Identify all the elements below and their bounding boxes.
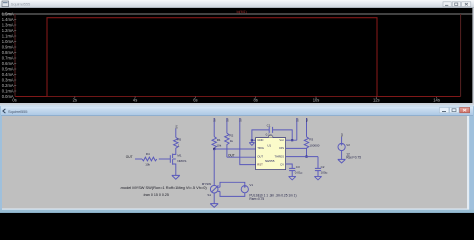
source V2 bbox=[338, 143, 345, 150]
junction Vcc/C1 bbox=[291, 139, 293, 141]
top window buttons (min, restore, close) bbox=[443, 2, 471, 7]
svg-text:C3: C3 bbox=[296, 165, 300, 169]
svg-text:Id(M1): Id(M1) bbox=[237, 10, 247, 14]
top window icon bbox=[2, 1, 9, 7]
resistor R3 bbox=[304, 137, 308, 149]
resistor R5 bbox=[174, 137, 178, 150]
pin labels U1 bbox=[257, 138, 284, 167]
wire OUT to R4 bbox=[135, 158, 142, 160]
bottom window frame bbox=[0, 106, 474, 213]
node 5V label (RST stub) bbox=[238, 118, 242, 122]
node 5V label (R2 stub) bbox=[225, 118, 229, 122]
ground (S1) bbox=[210, 204, 218, 208]
y axis ticks bbox=[14, 20, 16, 92]
svg-text:0s: 0s bbox=[12, 98, 16, 103]
wire GND pin stub bbox=[252, 139, 256, 141]
pane top grey line bbox=[2, 13, 473, 15]
wire V2 top stub bbox=[341, 137, 343, 143]
wire S1 top (TRIG junction down) bbox=[213, 149, 215, 186]
spice directive .model bbox=[120, 185, 208, 190]
svg-text:1.1mA: 1.1mA bbox=[2, 34, 14, 39]
svg-text:C2: C2 bbox=[321, 165, 325, 169]
wire R3 bottom to THRES bbox=[306, 148, 308, 156]
wire DIS pin to R3 bottom bbox=[286, 147, 307, 149]
U1 name/value bbox=[265, 143, 275, 163]
svg-text:1.0mA: 1.0mA bbox=[2, 39, 14, 44]
svg-text:OUT: OUT bbox=[257, 154, 263, 158]
svg-text:OUT: OUT bbox=[126, 155, 133, 159]
svg-text:Rser=0.75: Rser=0.75 bbox=[346, 156, 361, 160]
svg-text:10k: 10k bbox=[216, 144, 221, 148]
wire S1 control loop bottom bbox=[220, 191, 245, 196]
svg-text:5V: 5V bbox=[238, 118, 242, 122]
node 5V label (R3 stub) bbox=[305, 118, 309, 122]
wire TRIG net (R1 bottom to chip) bbox=[214, 148, 255, 150]
svg-text:5V: 5V bbox=[213, 118, 217, 122]
svg-text:1.2mA: 1.2mA bbox=[2, 28, 14, 33]
junction THRES/R3/C2 bbox=[305, 156, 307, 158]
wire R5 top stub bbox=[175, 129, 177, 138]
y axis labels bbox=[2, 12, 14, 100]
wire S1 bottom bbox=[213, 193, 215, 204]
svg-text:CV: CV bbox=[280, 163, 284, 167]
wire R1 top stub bbox=[213, 118, 215, 137]
svg-text:0.5mA: 0.5mA bbox=[2, 67, 14, 72]
svg-text:1.5mA: 1.5mA bbox=[2, 12, 14, 17]
wire M1 source bbox=[175, 169, 177, 175]
wire V2 bottom bbox=[341, 151, 343, 160]
svg-text:OUT: OUT bbox=[228, 153, 235, 157]
ground (555 GND pin) bbox=[249, 140, 254, 145]
svg-text:5V: 5V bbox=[305, 118, 309, 122]
svg-text:1.4mA: 1.4mA bbox=[2, 17, 14, 22]
svg-text:Squirrel555: Squirrel555 bbox=[8, 109, 28, 114]
capacitor C3 bbox=[289, 168, 295, 176]
svg-text:10k: 10k bbox=[145, 163, 150, 167]
node 5V label (V2 stub) bbox=[340, 133, 344, 137]
svg-text:100µ: 100µ bbox=[321, 170, 328, 174]
svg-text:V2: V2 bbox=[346, 143, 350, 147]
svg-text:Squirrel555: Squirrel555 bbox=[11, 2, 31, 7]
svg-text:THRES: THRES bbox=[275, 154, 285, 158]
ground (M1 source) bbox=[172, 175, 180, 179]
svg-text:0.7mA: 0.7mA bbox=[2, 56, 14, 61]
svg-text:TRIG: TRIG bbox=[257, 146, 264, 150]
svg-text:R5: R5 bbox=[177, 138, 181, 142]
svg-text:U1: U1 bbox=[267, 143, 271, 147]
svg-text:R3: R3 bbox=[309, 137, 313, 141]
svg-text:R2: R2 bbox=[230, 134, 234, 138]
wire OUT net (to chip OUT pin) bbox=[227, 156, 256, 158]
svg-text:0.1mA: 0.1mA bbox=[2, 89, 14, 94]
node 5V label (R5 stub) bbox=[174, 125, 178, 129]
svg-text:0.6mA: 0.6mA bbox=[2, 61, 14, 66]
svg-text:GND: GND bbox=[257, 138, 263, 142]
svg-text:0.9mA: 0.9mA bbox=[2, 45, 14, 50]
resistor R4 bbox=[142, 157, 157, 161]
junction GND pin bbox=[251, 139, 253, 141]
node 5V label (Vcc stub) bbox=[295, 118, 299, 122]
wire CV pin to C3 bbox=[286, 164, 293, 168]
ground (C2) bbox=[314, 176, 321, 180]
top window bottom edge bbox=[0, 103, 474, 104]
svg-text:5V: 5V bbox=[174, 125, 178, 129]
current trace Id(M1) pulse bbox=[16, 18, 461, 97]
node OUT label (at chip OUT wire) bbox=[228, 153, 235, 157]
pane left/right borders bbox=[15, 14, 461, 97]
resistor R1 bbox=[212, 137, 216, 149]
resistor R2 bbox=[225, 133, 229, 145]
wire THRES net bbox=[286, 157, 318, 169]
wire RST pull-up to 5V bbox=[240, 118, 256, 165]
ground (V2) bbox=[338, 159, 346, 163]
svg-text:V1: V1 bbox=[249, 183, 253, 187]
svg-text:1k: 1k bbox=[230, 139, 234, 143]
source V1 bbox=[241, 186, 248, 193]
node 5V label (R1 stub) bbox=[213, 118, 217, 122]
node OUT flag (left) bbox=[126, 155, 133, 159]
schematic grey client area bbox=[2, 116, 467, 208]
bottom window icon bbox=[3, 109, 6, 113]
svg-text:Rser=0.75: Rser=0.75 bbox=[249, 197, 264, 201]
op 555 timer U1 bbox=[256, 135, 286, 169]
svg-text:5V: 5V bbox=[340, 133, 344, 137]
svg-text:Vcc: Vcc bbox=[279, 138, 284, 142]
wire R4 to gate M1 bbox=[159, 158, 171, 160]
wire Vcc pin to 5V stub bbox=[286, 118, 297, 140]
svg-text:5V: 5V bbox=[225, 118, 229, 122]
bottom window title bar bbox=[1, 106, 473, 116]
capacitor C1 bbox=[269, 127, 272, 133]
svg-text:C1: C1 bbox=[267, 123, 271, 127]
svg-text:0.01µ: 0.01µ bbox=[295, 170, 303, 174]
svg-text:5V: 5V bbox=[295, 118, 299, 122]
wire C1 loop right bbox=[273, 130, 293, 140]
x axis ticks bbox=[75, 97, 437, 99]
wire R2 bottom to OUT net bbox=[226, 146, 228, 158]
pane bottom border / axis bbox=[15, 96, 461, 98]
svg-text:R1: R1 bbox=[217, 138, 221, 142]
svg-text:0.2mA: 0.2mA bbox=[2, 83, 14, 88]
svg-text:DIS: DIS bbox=[279, 146, 284, 150]
svg-text:.tran 0 15 0 0.25: .tran 0 15 0 0.25 bbox=[143, 193, 169, 197]
bottom window buttons (min, max, close) bbox=[440, 107, 470, 112]
svg-text:0.4mA: 0.4mA bbox=[2, 72, 14, 77]
top window title bar bbox=[0, 0, 474, 8]
svg-text:NMOS: NMOS bbox=[177, 159, 186, 163]
switch S1 bbox=[210, 185, 220, 193]
wire S1 control loop top bbox=[220, 182, 245, 187]
svg-text:R4: R4 bbox=[146, 152, 150, 156]
svg-text:1.3mA: 1.3mA bbox=[2, 23, 14, 28]
svg-text:.model MYSW SW(Ron=1 Roff=1Meg: .model MYSW SW(Ron=1 Roff=1Meg Vt=.5 Vh=… bbox=[120, 185, 208, 190]
junction TRIG/R1/S1 bbox=[213, 148, 215, 150]
svg-text:0.8mA: 0.8mA bbox=[2, 50, 14, 55]
spice directive .tran bbox=[143, 193, 169, 197]
svg-text:S1: S1 bbox=[207, 193, 211, 197]
wire C1 loop left bbox=[252, 130, 269, 140]
svg-text:M1: M1 bbox=[177, 154, 181, 158]
ground (C3) bbox=[289, 176, 296, 180]
transistor M1 NMOS bbox=[170, 150, 176, 169]
svg-text:NE555: NE555 bbox=[265, 159, 275, 163]
plot black client area bbox=[0, 8, 474, 103]
svg-text:RST: RST bbox=[257, 163, 263, 167]
svg-text:0.3mA: 0.3mA bbox=[2, 78, 14, 83]
svg-text:100000: 100000 bbox=[309, 143, 319, 147]
capacitor C2 bbox=[315, 168, 321, 176]
wire R3 top stub bbox=[306, 118, 308, 137]
x axis labels bbox=[12, 98, 440, 103]
wire R2 top stub bbox=[226, 118, 228, 133]
